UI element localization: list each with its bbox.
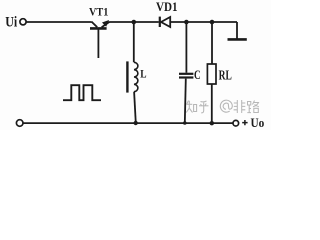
svg-text:VT1: VT1	[89, 4, 108, 18]
svg-text:RL: RL	[219, 68, 232, 83]
svg-text:C: C	[194, 67, 201, 82]
svg-text:Ui: Ui	[5, 14, 17, 30]
svg-text:L: L	[140, 69, 147, 81]
svg-text:Uo: Uo	[251, 115, 265, 130]
svg-text:VD1: VD1	[156, 0, 178, 14]
